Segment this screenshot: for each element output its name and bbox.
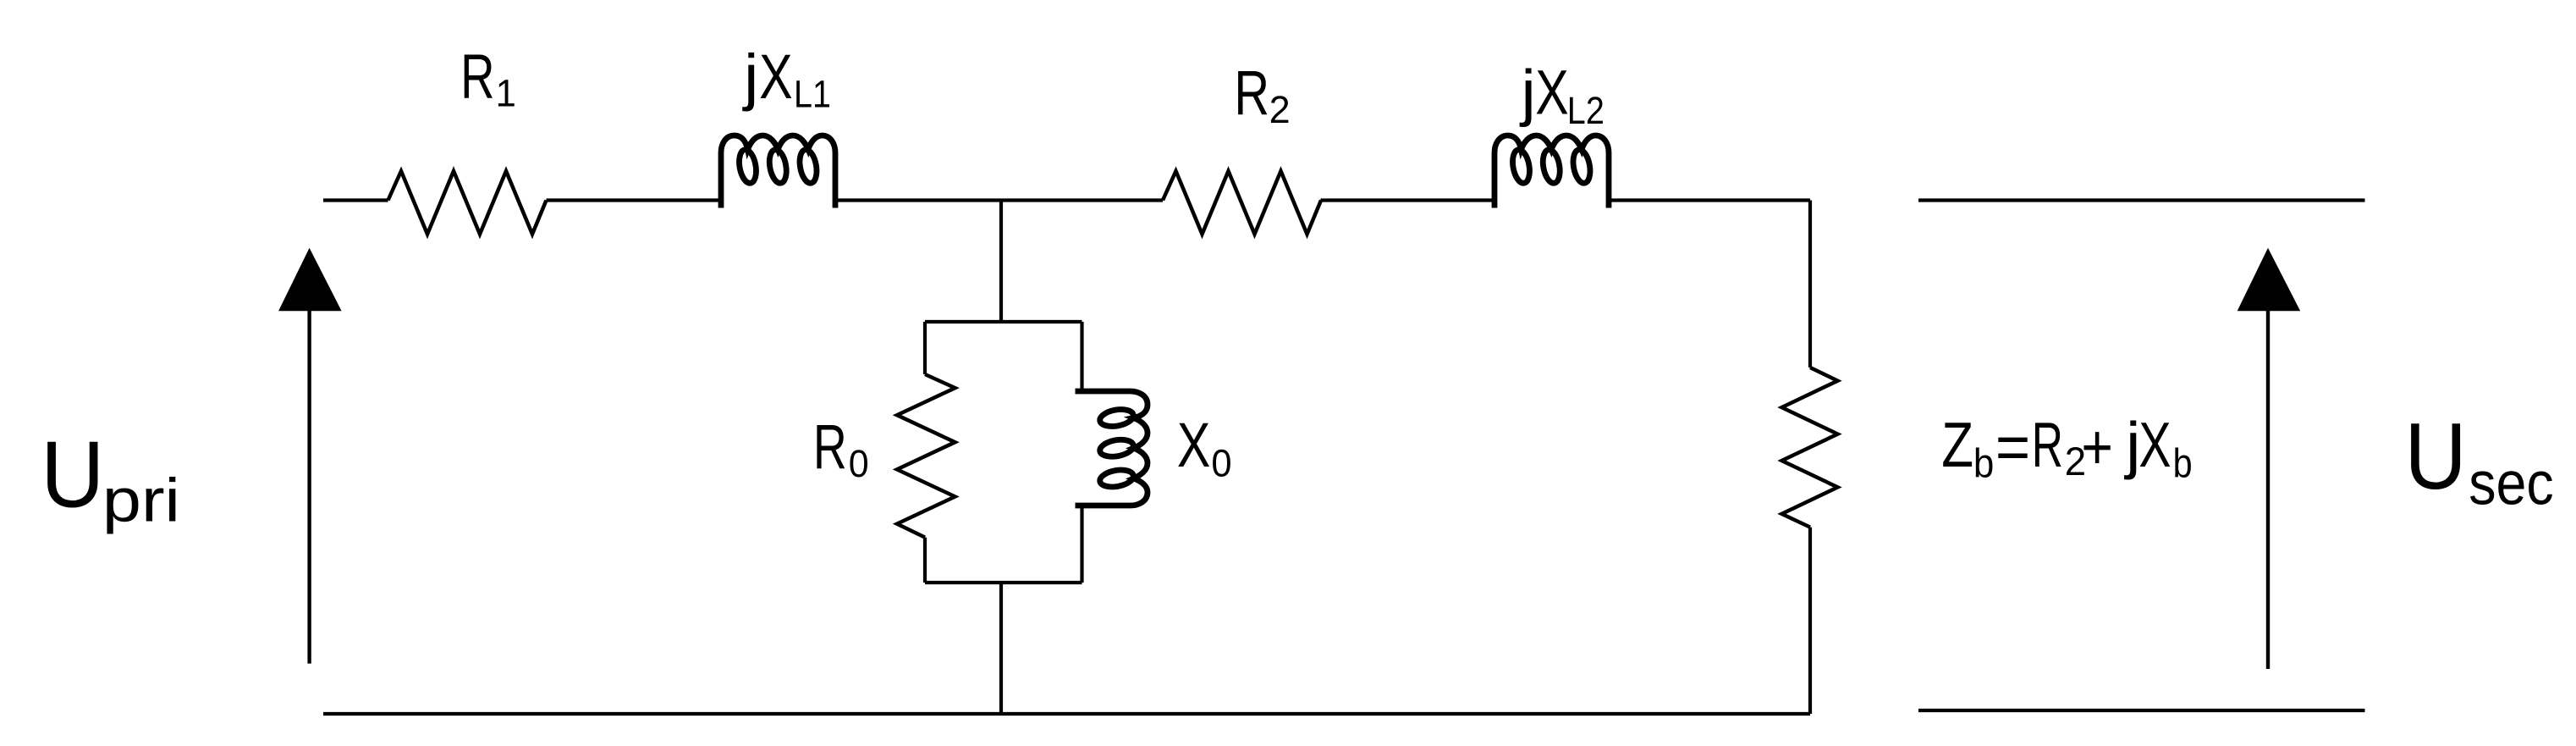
svg-text:X: X bbox=[759, 42, 792, 113]
svg-text:0: 0 bbox=[849, 443, 869, 485]
svg-text:X: X bbox=[2138, 409, 2171, 481]
svg-text:X: X bbox=[1535, 58, 1568, 128]
svg-text:+: + bbox=[2081, 412, 2113, 483]
svg-text:X: X bbox=[1177, 411, 1210, 481]
svg-text:2: 2 bbox=[1269, 88, 1291, 131]
svg-text:R: R bbox=[460, 41, 494, 111]
svg-text:R: R bbox=[2032, 409, 2063, 480]
svg-text:pri: pri bbox=[102, 467, 180, 534]
svg-text:U: U bbox=[2404, 404, 2467, 509]
svg-text:j: j bbox=[742, 42, 758, 113]
svg-text:0: 0 bbox=[1211, 443, 1231, 485]
svg-text:R: R bbox=[1234, 58, 1269, 129]
svg-text:b: b bbox=[1973, 440, 1994, 486]
svg-text:1: 1 bbox=[496, 73, 516, 115]
svg-text:sec: sec bbox=[2469, 450, 2553, 517]
svg-text:b: b bbox=[2173, 441, 2193, 487]
svg-text:Z: Z bbox=[1941, 408, 1973, 480]
svg-text:U: U bbox=[41, 422, 104, 528]
svg-text:L1: L1 bbox=[794, 73, 831, 115]
svg-text:R: R bbox=[813, 412, 847, 482]
svg-text:=: = bbox=[1995, 411, 2030, 483]
svg-text:L2: L2 bbox=[1567, 90, 1604, 132]
svg-text:j: j bbox=[1519, 58, 1535, 128]
